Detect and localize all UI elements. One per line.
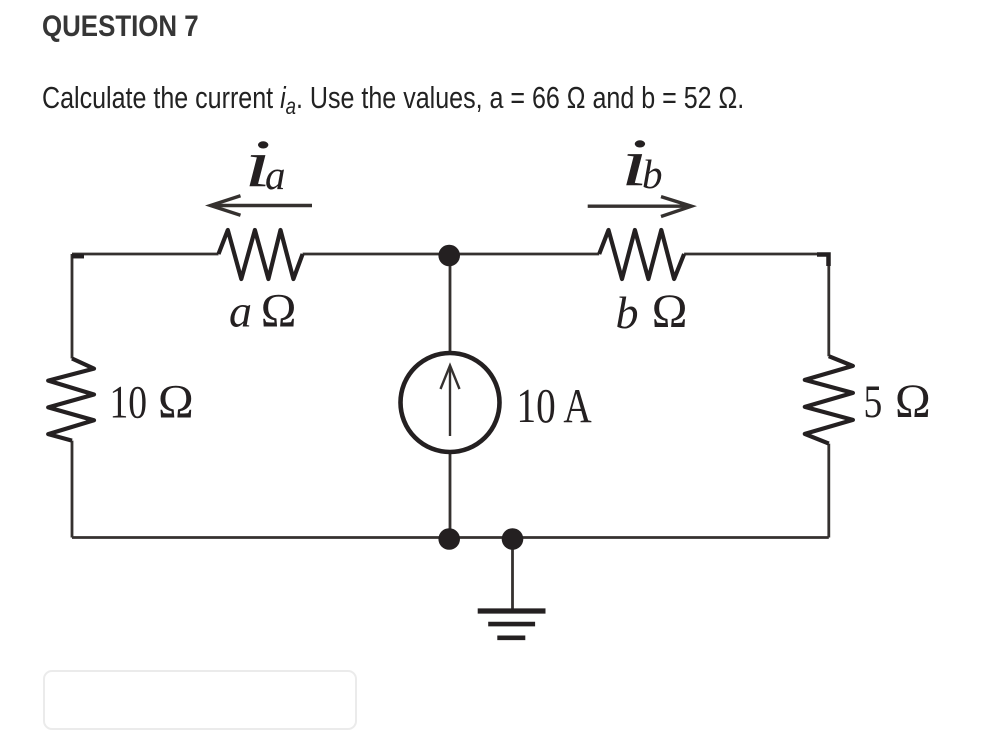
svg-text:Ω: Ω — [652, 285, 688, 338]
svg-text:b: b — [642, 151, 663, 197]
svg-text:Ω: Ω — [895, 375, 931, 428]
svg-text:Ω: Ω — [261, 285, 297, 338]
svg-text:Ω: Ω — [158, 376, 194, 429]
svg-text:b: b — [616, 287, 639, 338]
svg-text:a: a — [229, 286, 252, 337]
svg-text:5: 5 — [864, 376, 883, 428]
svg-text:10: 10 — [110, 377, 148, 429]
svg-text:a: a — [265, 152, 286, 198]
svg-text:10 A: 10 A — [517, 378, 592, 433]
